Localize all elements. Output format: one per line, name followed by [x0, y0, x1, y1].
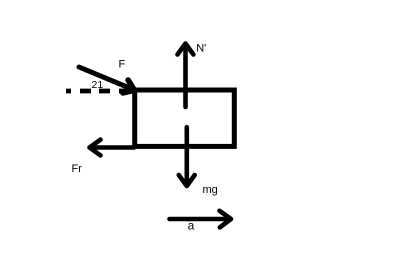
dashed horizontal reference line	[66, 89, 127, 94]
acceleration a arrow	[170, 211, 232, 228]
friction force Fr arrow	[90, 140, 135, 156]
block (box)	[135, 90, 235, 146]
svg-text:a: a	[188, 219, 195, 233]
svg-text:N': N'	[196, 42, 206, 54]
svg-text:21: 21	[92, 79, 104, 91]
svg-text:F: F	[119, 59, 126, 71]
svg-text:Fr: Fr	[72, 163, 83, 175]
normal force N' arrow	[178, 44, 194, 108]
force F arrow (applied at 21 deg into top-left corner)	[79, 67, 135, 93]
weight mg arrow	[179, 127, 195, 186]
svg-text:mg: mg	[203, 184, 218, 196]
